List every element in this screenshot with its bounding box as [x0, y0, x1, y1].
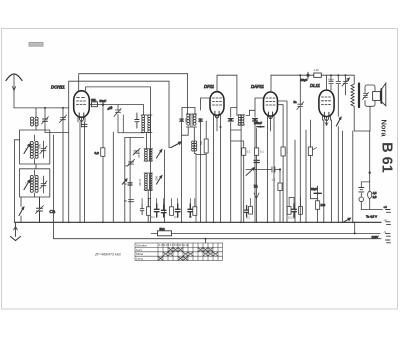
coil L3: [30, 170, 38, 197]
switch S1c: [19, 197, 24, 222]
node bus dots: [68, 221, 354, 223]
oscillator coil T1: [141, 105, 152, 149]
capacitor 5n left: [298, 76, 303, 223]
svg-text:Nora: Nora: [380, 119, 389, 137]
svg-text:50µF: 50µF: [301, 78, 308, 82]
svg-text:0,1: 0,1: [260, 150, 264, 154]
svg-text:Ta 4,5 V: Ta 4,5 V: [366, 215, 377, 219]
coil T2: [144, 149, 153, 162]
wire osc mid column: [164, 150, 166, 222]
capacitor tiny left: [140, 205, 144, 215]
resistor 5k: [158, 231, 172, 236]
tube DL11 pins: [323, 116, 331, 125]
potentiometer volume: [246, 168, 254, 176]
coil T3: [144, 173, 153, 222]
wire antenna to input: [14, 107, 69, 109]
capacitor IFT2 right: [253, 110, 258, 222]
resistor 1M: [281, 147, 285, 156]
wire IFT2 bottom column: [240, 125, 242, 222]
capacitor UBD block: [92, 102, 98, 107]
svg-text:0,2: 0,2: [95, 151, 100, 155]
switch table: [135, 243, 223, 261]
resistor c: [170, 207, 174, 216]
svg-text:ZF=468/473 kHz: ZF=468/473 kHz: [94, 253, 121, 257]
coil L2: [30, 135, 38, 164]
battery branch: [359, 182, 370, 210]
resistor i: [249, 206, 253, 214]
capacitor h: [245, 206, 249, 217]
svg-text:3n: 3n: [124, 182, 127, 186]
capacitor +1p: [106, 105, 143, 133]
coil L1 antenna coupling: [30, 108, 38, 130]
svg-text:5n: 5n: [294, 100, 298, 104]
wire anode row: [89, 104, 143, 106]
IF transformer 1: [182, 107, 197, 127]
trimmer C3: [40, 176, 47, 193]
capacitor on cathode: [82, 124, 87, 126]
capacitor 25uF: [311, 187, 321, 194]
resistor meter: [368, 191, 372, 198]
svg-text:051: 051: [199, 141, 203, 146]
svg-text:900: 900: [38, 144, 42, 149]
resistor flag: [308, 120, 316, 199]
wire IFT1 to DF11 grid: [201, 98, 211, 110]
wire DAF11 columns: [268, 127, 275, 222]
padder capacitor Cp2: [128, 159, 135, 166]
wire minus rail: [54, 135, 382, 239]
node 50uF: [102, 103, 105, 106]
capacitor e: [188, 204, 193, 217]
wire bus L3: [86, 87, 151, 222]
ground: [11, 222, 21, 240]
wire DAF11 top cap: [270, 75, 272, 92]
svg-text:DF11: DF11: [204, 84, 215, 89]
switch S4: [336, 95, 341, 222]
value smudge labels: [25, 68, 387, 234]
svg-text:400: 400: [29, 178, 33, 183]
svg-text:DCH11: DCH11: [51, 85, 65, 90]
svg-text:+9: +9: [384, 218, 388, 222]
wire vertical col x63: [62, 108, 64, 222]
band filter frame 1: [20, 130, 50, 164]
capacitor nf a: [329, 75, 333, 90]
trimmer C4: [60, 115, 67, 123]
wire mid rail: [151, 232, 380, 234]
capacitor 50uF right: [301, 72, 310, 82]
wire 25uF link: [310, 186, 317, 222]
switch S1b: [24, 180, 30, 190]
svg-text:B 61: B 61: [379, 142, 395, 173]
wire audio columns: [244, 130, 306, 222]
switch S2b: [157, 176, 162, 184]
capacitor 50nF: [254, 160, 259, 162]
transformer core: [358, 84, 360, 108]
speaker loop: [363, 85, 376, 106]
wire DL11 grid top: [326, 75, 328, 90]
tube DF11 pins: [214, 115, 221, 131]
tube DAF11 pins: [268, 116, 275, 132]
svg-text:5kΩ: 5kΩ: [160, 227, 165, 231]
svg-text:1 2 3 4 5 6 7 8 9 10 11 12: 1 2 3 4 5 6 7 8 9 10 11 12: [159, 243, 189, 247]
table X marks: [158, 248, 218, 261]
svg-text:0,1: 0,1: [246, 216, 250, 220]
svg-text:50µF: 50µF: [100, 99, 107, 103]
svg-text:0,06: 0,06: [137, 153, 141, 159]
svg-text:0,1: 0,1: [247, 150, 251, 154]
svg-text:120V: 120V: [372, 235, 379, 239]
svg-text:0,1: 0,1: [174, 215, 178, 219]
capacitor 5nF: [246, 167, 280, 172]
wire stubs to components: [142, 198, 300, 207]
wire left ground rail: [14, 140, 16, 223]
svg-text:25µF: 25µF: [311, 187, 318, 191]
switch S5: [343, 218, 351, 222]
svg-text:Kurz: Kurz: [136, 248, 143, 252]
capacitor IFT2 left: [228, 118, 233, 222]
svg-text:Mittel: Mittel: [136, 252, 144, 256]
node antenna line junction: [44, 107, 46, 109]
stamp mark: [29, 43, 43, 47]
band filter frame 2: [20, 164, 50, 197]
resistor f: [193, 207, 197, 216]
capacitor osc left: [135, 113, 139, 128]
battery bottom wire: [361, 209, 382, 211]
wire column x342: [342, 131, 344, 222]
resistor k: [287, 207, 291, 215]
capacitor b: [161, 205, 166, 217]
capacitor IFT1 left: [180, 119, 184, 222]
svg-text:Lang: Lang: [136, 257, 143, 261]
resistor 1,5M: [278, 183, 282, 191]
switch osc: [122, 179, 127, 184]
node dots on bus: [330, 74, 332, 76]
wire DF11 columns: [206, 121, 220, 222]
wire filter link: [45, 131, 69, 133]
transformer bottom column: [352, 131, 354, 222]
wire grid bus L2: [69, 81, 169, 222]
svg-text:Schalter: Schalter: [136, 243, 147, 247]
svg-text:50: 50: [189, 215, 192, 219]
svg-text:0,2 50: 0,2 50: [288, 216, 296, 220]
resistor 0,3M: [242, 148, 246, 155]
coil osc coupling: [182, 127, 197, 222]
svg-text:NFdr: NFdr: [328, 78, 334, 82]
svg-text:DL11: DL11: [310, 83, 321, 88]
switch S2a: [157, 150, 162, 158]
svg-text:060: 060: [29, 144, 33, 149]
resistor 120: [316, 201, 320, 210]
capacitor osc pad: [128, 183, 132, 185]
ground bus main: [15, 221, 382, 223]
capacitor j: [292, 204, 297, 217]
tuning capacitor CA: [36, 197, 44, 222]
antenna: [6, 74, 22, 108]
resistor 0,2: [101, 148, 105, 157]
svg-text:+4: +4: [384, 205, 388, 209]
svg-text:1,2k: 1,2k: [314, 68, 320, 72]
svg-text:UBL: UBL: [91, 98, 97, 102]
wire IFT2 to DAF11 grid: [255, 98, 264, 110]
tube DL11: [319, 90, 334, 121]
svg-text:25: 25: [125, 164, 128, 168]
switch S1a: [24, 144, 30, 154]
svg-text:095: 095: [184, 118, 188, 123]
resistor 0,1M: [255, 148, 259, 155]
top bus right: [271, 74, 354, 76]
tube DCH11 pins: [78, 117, 85, 127]
capacitor 0,1uF d: [175, 204, 180, 217]
wire DF11 anode to IFT2: [217, 75, 237, 115]
wire DL11 columns: [323, 120, 332, 222]
wire speaker return: [354, 106, 370, 131]
tube DF11: [210, 92, 224, 118]
speaker: [373, 83, 386, 106]
svg-text:2,5: 2,5: [373, 195, 377, 199]
output transformer primary: [351, 75, 354, 131]
wire table tick: [205, 239, 207, 243]
capacitor 0,1uF a: [154, 204, 159, 217]
svg-text:900: 900: [155, 176, 159, 181]
padder capacitor Cp1: [133, 148, 140, 155]
svg-text:0,100: 0,100: [138, 179, 142, 186]
tube DAF11: [264, 92, 278, 119]
capacitor 100nF: [254, 121, 264, 128]
svg-text:1,5: 1,5: [272, 178, 276, 182]
resistor on screen column: [204, 139, 208, 153]
wire osc vertical columns: [113, 132, 130, 222]
resistor bias: [147, 207, 151, 216]
svg-text:100nF: 100nF: [254, 121, 262, 125]
resistor 1,2k: [314, 73, 322, 77]
svg-text:0,1: 0,1: [151, 215, 155, 219]
wire cathode columns: [80, 122, 84, 222]
svg-text:096: 096: [198, 118, 202, 123]
padder capacitor Cp3: [129, 200, 134, 202]
svg-text:DAF11: DAF11: [251, 84, 265, 89]
potentiometer tone: [342, 75, 349, 95]
capacitor nf b: [336, 75, 340, 95]
svg-text:Ca: Ca: [50, 209, 56, 214]
trimmer C1: [42, 108, 49, 132]
switch S3: [171, 142, 181, 148]
IF transformer 2: [231, 108, 255, 130]
tube DCH11: [74, 91, 90, 122]
svg-text:50: 50: [124, 199, 127, 203]
wire screen bus L1: [79, 74, 188, 114]
svg-text:120: 120: [321, 203, 326, 207]
capacitor IFT1 right: [199, 119, 203, 222]
trimmer C2: [40, 141, 47, 158]
wire screen column: [102, 106, 104, 222]
